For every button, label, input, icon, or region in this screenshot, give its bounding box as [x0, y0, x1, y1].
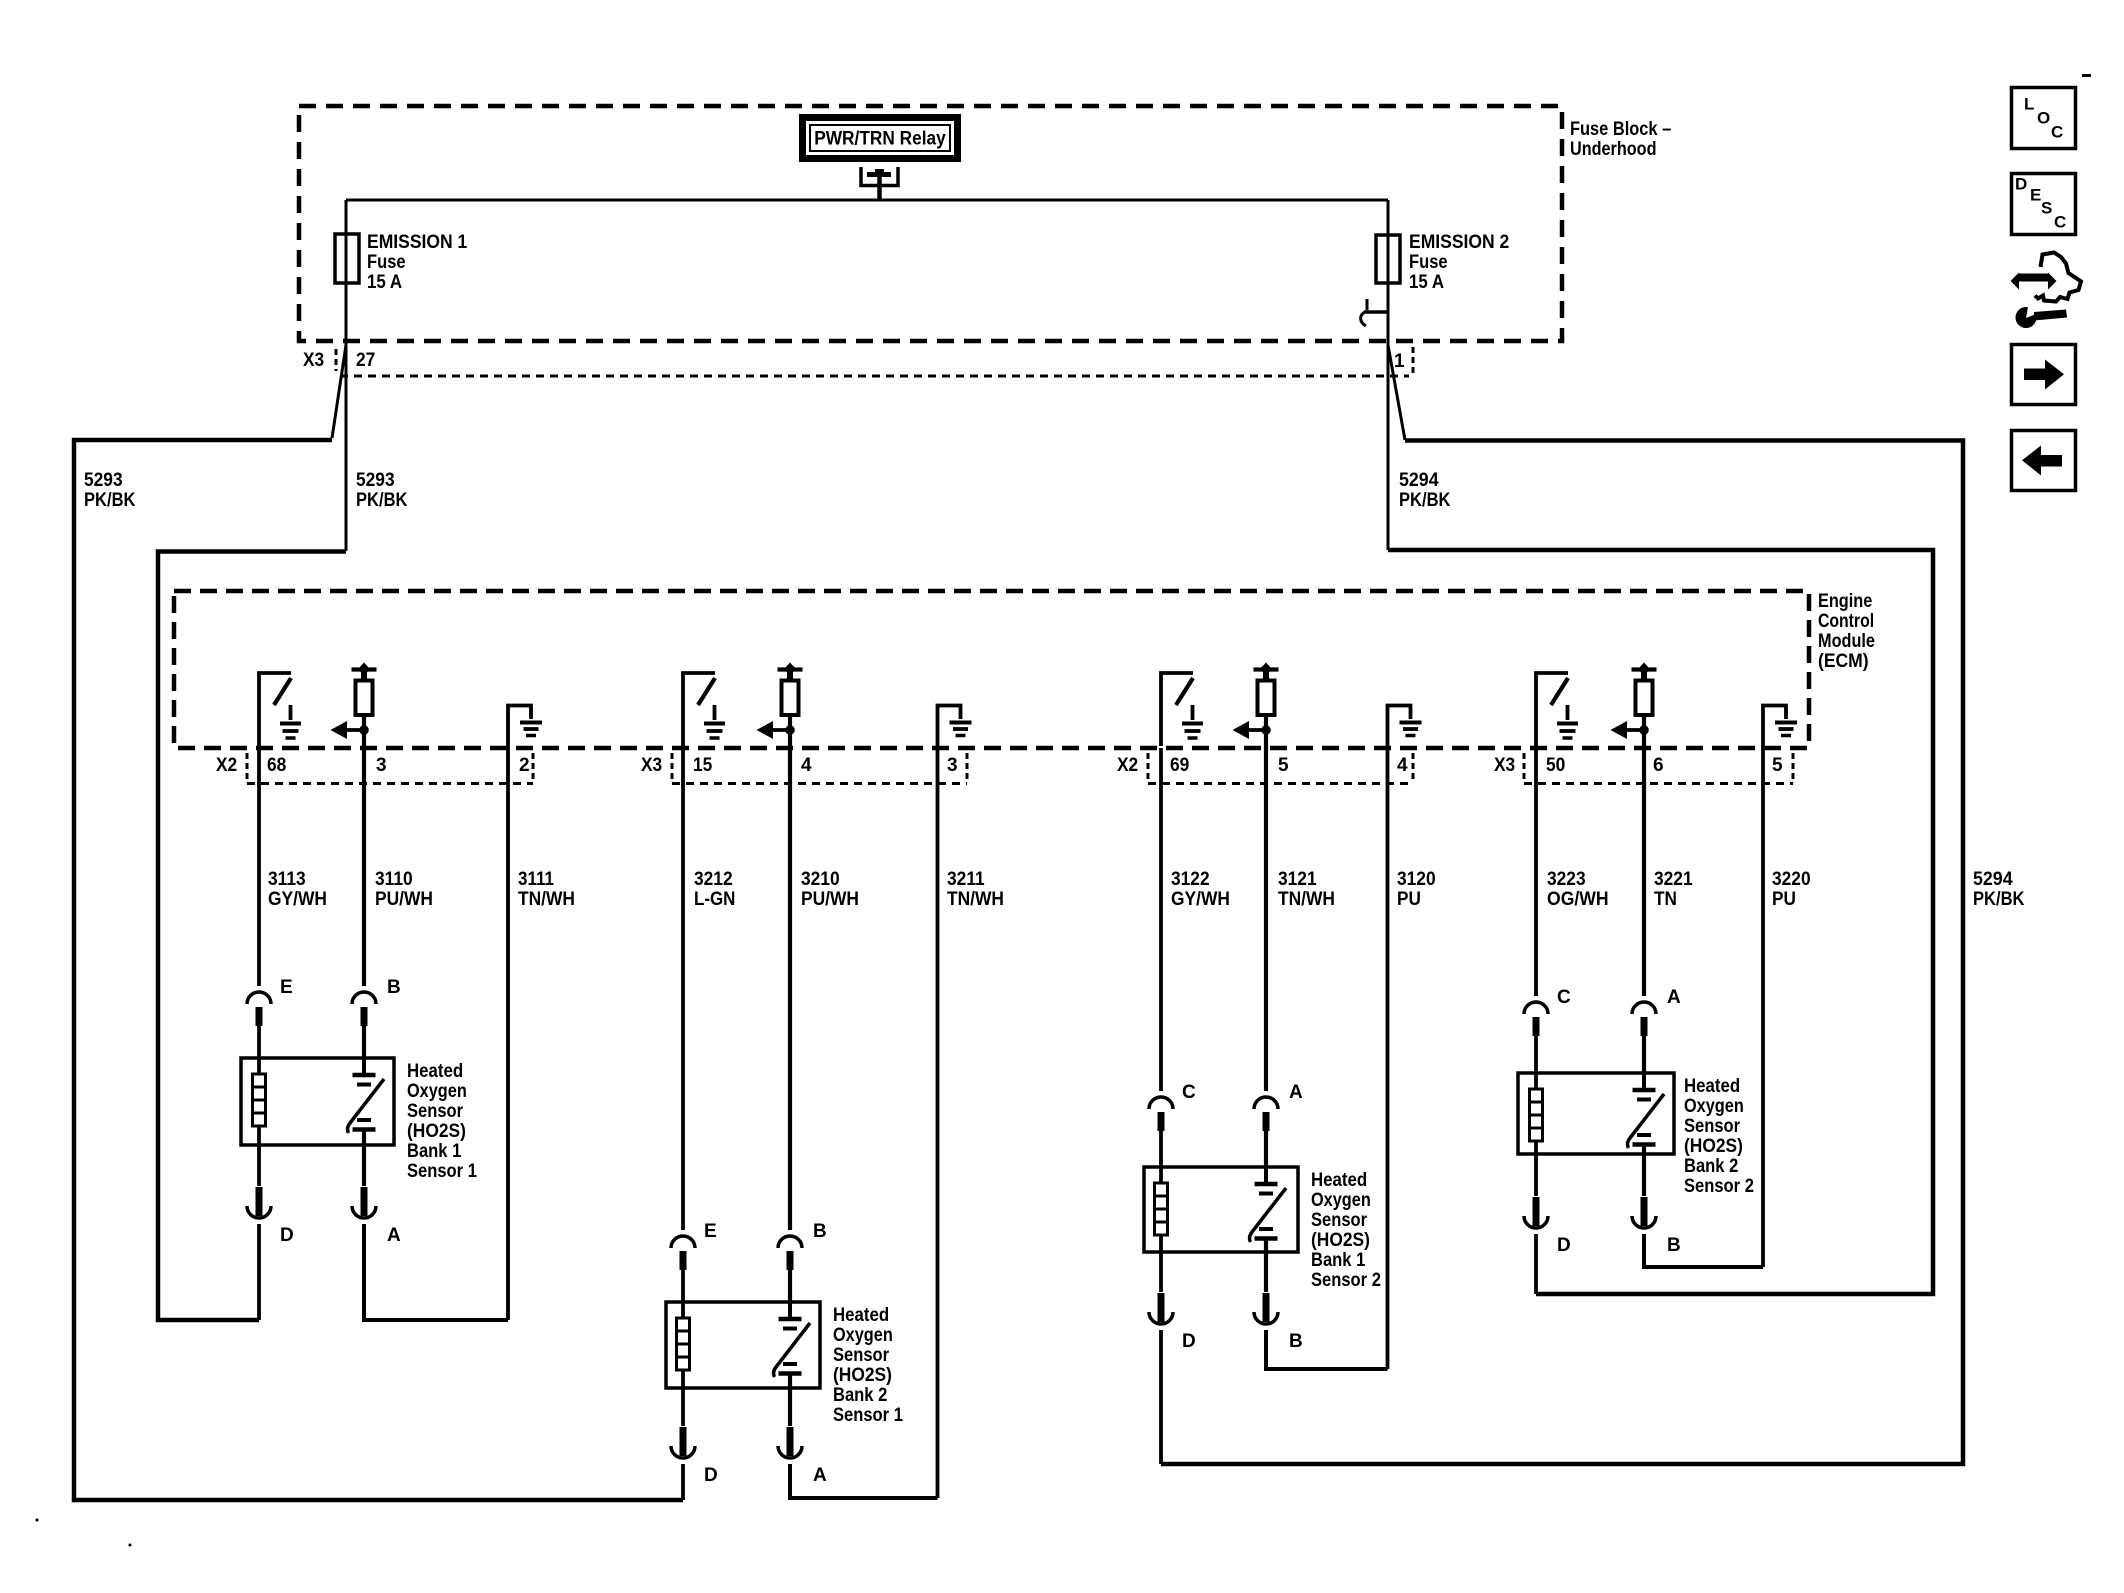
wire from pin 68 to HO2S Bank 1 Sensor 1 pin E: [257, 748, 261, 986]
svg-text:3120: 3120: [1397, 869, 1436, 890]
svg-text:2: 2: [519, 755, 530, 776]
svg-text:Oxygen: Oxygen: [833, 1325, 893, 1346]
svg-text:X2: X2: [1117, 755, 1138, 776]
pin 68: [267, 755, 286, 776]
svg-text:(HO2S): (HO2S): [833, 1365, 892, 1386]
svg-text:3: 3: [376, 755, 387, 776]
sensor cell (battery w/ arrow) of HO2S Bank 2 Sensor 1: [774, 1302, 810, 1388]
pin 5: [1278, 755, 1289, 776]
pigtail terminal B of HO2S Bank 1 Sensor 1: [352, 992, 376, 1026]
heater element of HO2S Bank 1 Sensor 2: [1155, 1167, 1168, 1252]
svg-text:TN/WH: TN/WH: [947, 889, 1004, 910]
pin 2: [519, 755, 530, 776]
svg-text:TN/WH: TN/WH: [1278, 889, 1335, 910]
svg-text:GY/WH: GY/WH: [1171, 889, 1230, 910]
DESC button: [2012, 174, 2076, 235]
svg-text:L: L: [2024, 95, 2034, 114]
svg-text:A: A: [1667, 987, 1681, 1008]
svg-text:Sensor: Sensor: [1684, 1116, 1741, 1137]
wire D to heater feed: [1159, 1330, 1163, 1464]
svg-text:S: S: [2041, 199, 2052, 218]
svg-text:5293: 5293: [356, 470, 395, 491]
terminal hook at fuse 2: [1361, 299, 1388, 326]
pin 50: [1546, 755, 1565, 776]
ECM driver switch for HO2S Bank 2 Sensor 2 heater: [1536, 673, 1578, 746]
svg-text:5293: 5293: [84, 470, 123, 491]
svg-text:X3: X3: [641, 755, 662, 776]
svg-text:Sensor: Sensor: [833, 1345, 890, 1366]
pigtail terminal B of HO2S Bank 2 Sensor 1: [778, 1236, 802, 1270]
wire 5294 PK/BK inner branch to HO2S B2S2 heater: [1388, 550, 1933, 1294]
svg-text:5294: 5294: [1973, 869, 2013, 890]
connector separator right: [532, 753, 535, 783]
svg-text:5294: 5294: [1399, 470, 1439, 491]
wire from pin 5 to HO2S Bank 1 Sensor 2 pin A: [1264, 750, 1268, 1091]
sensor cell (battery w/ arrow) of HO2S Bank 1 Sensor 2: [1250, 1167, 1286, 1252]
pigtail terminal A of HO2S Bank 1 Sensor 1: [352, 1145, 376, 1218]
svg-text:(HO2S): (HO2S): [1311, 1230, 1370, 1251]
wire D to heater feed: [1534, 1234, 1538, 1294]
wire 5294 below fuse 2: [1387, 283, 1390, 550]
Engine Control Module (ECM) box: [174, 591, 1809, 748]
svg-text:PK/BK: PK/BK: [356, 490, 408, 511]
pigtail terminal E of HO2S Bank 1 Sensor 1: [247, 992, 271, 1026]
ECM sense resistor for HO2S Bank 1 Sensor 1 signal: [331, 663, 377, 751]
wire from pin 5 (low ref): [1761, 748, 1765, 1267]
label wire 3122 GY/WH: [1171, 869, 1230, 910]
ECM sense resistor for HO2S Bank 1 Sensor 2 signal: [1233, 663, 1279, 751]
pigtail terminal C of HO2S Bank 2 Sensor 2: [1524, 1002, 1548, 1036]
connector dotted line: [1524, 782, 1793, 785]
sensor cell (battery w/ arrow) of HO2S Bank 2 Sensor 2: [1628, 1073, 1664, 1154]
wire: [257, 1024, 261, 1058]
svg-text:3121: 3121: [1278, 869, 1317, 890]
svg-text:D: D: [1182, 1331, 1196, 1352]
svg-text:E: E: [280, 977, 293, 998]
svg-text:1: 1: [1394, 351, 1405, 372]
wire: drop to fuse 1: [345, 200, 348, 345]
pin 3: [376, 755, 387, 776]
connector separator left: [335, 349, 338, 371]
connector separator right: [1412, 347, 1415, 374]
svg-text:Bank 2: Bank 2: [833, 1385, 887, 1406]
svg-text:A: A: [813, 1465, 827, 1486]
pin 15: [693, 755, 713, 776]
fuse block box: Fuse Block - Underhood: [299, 106, 1562, 341]
wire: [1642, 1034, 1646, 1073]
connector separator left: [1147, 753, 1150, 783]
ECM driver switch for HO2S Bank 1 Sensor 2 heater: [1161, 673, 1203, 746]
svg-text:4: 4: [1397, 755, 1408, 776]
svg-text:A: A: [1289, 1082, 1303, 1103]
svg-text:EMISSION 1: EMISSION 1: [367, 232, 468, 253]
wire from pin 50 to HO2S Bank 2 Sensor 2 pin C: [1534, 748, 1538, 996]
label Engine Control Module (ECM): [1818, 591, 1875, 672]
svg-text:50: 50: [1546, 755, 1565, 776]
svg-text:3: 3: [947, 755, 958, 776]
wire: [362, 1024, 366, 1058]
svg-text:5: 5: [1278, 755, 1289, 776]
ECM internal ground for HO2S Bank 2 Sensor 2 low reference: [1763, 706, 1797, 749]
sensor box HO2S Bank 1 Sensor 2: [1144, 1167, 1381, 1291]
svg-text:C: C: [2051, 123, 2063, 142]
connector separator right: [966, 753, 969, 783]
wire: relay feed bus to fuses: [346, 199, 1388, 202]
connector X2 label (HO2S Bank 1 Sensor 1): [216, 755, 237, 776]
label wire 3121 TN/WH: [1278, 869, 1335, 910]
svg-text:B: B: [813, 1221, 827, 1242]
svg-text:Bank 1: Bank 1: [407, 1141, 462, 1162]
svg-text:PK/BK: PK/BK: [1399, 490, 1451, 511]
svg-text:(HO2S): (HO2S): [407, 1121, 466, 1142]
pigtail terminal D of HO2S Bank 2 Sensor 1: [671, 1388, 695, 1458]
svg-text:Oxygen: Oxygen: [407, 1081, 467, 1102]
wire 5293 PK/BK left branch to HO2S B2S1 heater: [74, 440, 683, 1500]
pigtail terminal E of HO2S Bank 2 Sensor 1: [671, 1236, 695, 1270]
vehicle/wrench icon: [2011, 253, 2082, 329]
pin 69: [1170, 755, 1189, 776]
svg-text:A: A: [387, 1225, 401, 1246]
wire A to low reference pin: [364, 1224, 508, 1320]
svg-text:L-GN: L-GN: [694, 889, 735, 910]
pigtail terminal A of HO2S Bank 2 Sensor 1: [778, 1388, 802, 1458]
svg-text:Module: Module: [1818, 631, 1875, 652]
svg-text:Bank 1: Bank 1: [1311, 1250, 1366, 1271]
pigtail terminal B of HO2S Bank 2 Sensor 2: [1632, 1154, 1656, 1228]
label wire 3210 PU/WH: [801, 869, 859, 910]
svg-text:EMISSION 2: EMISSION 2: [1409, 232, 1509, 253]
label wire 5294 PK/BK: [1399, 470, 1451, 511]
svg-text:D: D: [1557, 1235, 1571, 1256]
svg-text:TN: TN: [1654, 889, 1677, 910]
label wire 3221 TN: [1654, 869, 1693, 910]
svg-text:Engine: Engine: [1818, 591, 1872, 612]
connector dotted line: [340, 375, 1409, 378]
ECM sense resistor for HO2S Bank 2 Sensor 1 signal: [757, 663, 803, 751]
svg-text:O: O: [2037, 109, 2050, 128]
pigtail terminal A of HO2S Bank 1 Sensor 2: [1254, 1097, 1278, 1131]
svg-text:Bank 2: Bank 2: [1684, 1156, 1738, 1177]
svg-text:Heated: Heated: [1684, 1076, 1740, 1097]
svg-text:Underhood: Underhood: [1570, 139, 1657, 160]
connector dotted line: [672, 782, 967, 785]
wire: [1534, 1034, 1538, 1073]
svg-text:Sensor 2: Sensor 2: [1684, 1176, 1754, 1197]
svg-text:3122: 3122: [1171, 869, 1210, 890]
label wire 3220 PU: [1772, 869, 1811, 910]
wire from pin 15 to HO2S Bank 2 Sensor 1 pin E: [681, 748, 685, 1230]
svg-text:D: D: [280, 1225, 294, 1246]
svg-text:Fuse: Fuse: [367, 252, 406, 273]
svg-text:C: C: [2054, 213, 2066, 232]
wire A to low reference pin: [790, 1464, 938, 1498]
svg-text:Sensor: Sensor: [407, 1101, 464, 1122]
pin 4: [1397, 755, 1408, 776]
pin 27: [356, 350, 375, 371]
pigtail terminal C of HO2S Bank 1 Sensor 2: [1149, 1097, 1173, 1131]
svg-text:Sensor 1: Sensor 1: [407, 1161, 477, 1182]
svg-text:X2: X2: [216, 755, 237, 776]
svg-text:Heated: Heated: [407, 1061, 463, 1082]
pigtail terminal D of HO2S Bank 1 Sensor 1: [247, 1145, 271, 1218]
svg-text:PU: PU: [1772, 889, 1796, 910]
svg-text:15 A: 15 A: [367, 272, 402, 293]
label wire 5293 PK/BK: [356, 470, 408, 511]
svg-text:Sensor 2: Sensor 2: [1311, 1270, 1381, 1291]
pigtail terminal B of HO2S Bank 1 Sensor 2: [1254, 1252, 1278, 1324]
connector dotted line: [1148, 782, 1413, 785]
relay contact symbol: [861, 167, 898, 201]
svg-text:Heated: Heated: [1311, 1170, 1367, 1191]
label wire 5293 PK/BK (far left): [84, 470, 136, 511]
svg-text:C: C: [1182, 1082, 1196, 1103]
svg-text:3220: 3220: [1772, 869, 1811, 890]
pigtail terminal D of HO2S Bank 1 Sensor 2: [1149, 1252, 1173, 1324]
svg-text:68: 68: [267, 755, 286, 776]
wire 5293 below fuse 1: [345, 283, 348, 551]
connector separator left: [671, 753, 674, 783]
svg-text:3210: 3210: [801, 869, 840, 890]
svg-text:15 A: 15 A: [1409, 272, 1444, 293]
back (left arrow) button: [2012, 431, 2076, 491]
svg-text:(HO2S): (HO2S): [1684, 1136, 1743, 1157]
ECM internal ground for HO2S Bank 2 Sensor 1 low reference: [938, 706, 972, 749]
label wire 3110 PU/WH: [375, 869, 433, 910]
wire from pin 69 to HO2S Bank 1 Sensor 2 pin C: [1159, 748, 1163, 1091]
svg-text:PWR/TRN Relay: PWR/TRN Relay: [814, 129, 946, 150]
stray mark bottom left 2: [129, 1544, 132, 1547]
svg-text:B: B: [1289, 1331, 1303, 1352]
wire 5294 diagonal through connector (right): [1388, 345, 1405, 440]
label wire 3113 GY/WH: [268, 869, 327, 910]
relay K1 PWR/TRN Relay box: [803, 118, 958, 159]
svg-text:GY/WH: GY/WH: [268, 889, 327, 910]
connector separator right: [1792, 753, 1795, 783]
wire: drop to fuse 2: [1387, 200, 1390, 345]
wire 5293 PK/BK branch to HO2S B1S1 heater: [158, 552, 346, 1321]
svg-text:Oxygen: Oxygen: [1311, 1190, 1371, 1211]
heater element of HO2S Bank 2 Sensor 2: [1530, 1073, 1543, 1154]
fuse F1 EMISSION 1 15 A: [335, 232, 468, 293]
svg-text:PK/BK: PK/BK: [84, 490, 136, 511]
ECM driver switch for HO2S Bank 1 Sensor 1 heater: [259, 673, 301, 746]
svg-text:Fuse Block –: Fuse Block –: [1570, 119, 1671, 140]
svg-text:15: 15: [693, 755, 713, 776]
wire D to heater feed: [681, 1464, 685, 1500]
pin 3: [947, 755, 958, 776]
connector X3 label (HO2S Bank 2 Sensor 2): [1494, 755, 1515, 776]
connector X2 label (HO2S Bank 1 Sensor 2): [1117, 755, 1138, 776]
svg-text:D: D: [704, 1465, 718, 1486]
connector X3 label (fuse block): [303, 350, 324, 371]
wire B to low reference pin: [1266, 1330, 1388, 1369]
ECM internal ground for HO2S Bank 1 Sensor 2 low reference: [1388, 706, 1422, 749]
wire from pin 2 (low ref): [506, 748, 510, 1320]
svg-text:4: 4: [801, 755, 812, 776]
label wire 5294 PK/BK (far right): [1973, 869, 2025, 910]
svg-text:Sensor: Sensor: [1311, 1210, 1368, 1231]
svg-text:27: 27: [356, 350, 375, 371]
pigtail terminal A of HO2S Bank 2 Sensor 2: [1632, 1002, 1656, 1036]
label wire 3111 TN/WH: [518, 869, 575, 910]
svg-text:69: 69: [1170, 755, 1189, 776]
connector dotted line: [247, 782, 533, 785]
next (right arrow) button: [2012, 345, 2076, 405]
wire: [788, 1268, 792, 1302]
wire from pin 4 (low ref): [1386, 748, 1390, 1369]
svg-text:TN/WH: TN/WH: [518, 889, 575, 910]
svg-text:3212: 3212: [694, 869, 733, 890]
svg-text:X3: X3: [1494, 755, 1515, 776]
svg-text:3223: 3223: [1547, 869, 1586, 890]
label wire 3223 OG/WH: [1547, 869, 1609, 910]
svg-text:C: C: [1557, 987, 1571, 1008]
svg-text:PK/BK: PK/BK: [1973, 889, 2025, 910]
svg-text:3111: 3111: [518, 869, 554, 890]
pin 5: [1772, 755, 1783, 776]
connector X3 label (HO2S Bank 2 Sensor 1): [641, 755, 662, 776]
LOC button: [2012, 88, 2076, 149]
label Fuse Block - Underhood: [1570, 119, 1671, 160]
svg-text:Heated: Heated: [833, 1305, 889, 1326]
ECM sense resistor for HO2S Bank 2 Sensor 2 signal: [1611, 663, 1657, 751]
pin 4: [801, 755, 812, 776]
svg-text:B: B: [1667, 1235, 1681, 1256]
svg-text:6: 6: [1653, 755, 1664, 776]
svg-text:Control: Control: [1818, 611, 1874, 632]
svg-text:Sensor 1: Sensor 1: [833, 1405, 903, 1426]
svg-text:(ECM): (ECM): [1818, 651, 1869, 672]
fuse F2 EMISSION 2 15 A: [1376, 232, 1509, 293]
svg-text:PU: PU: [1397, 889, 1421, 910]
wire 5294 PK/BK outer branch to HO2S B1S2 heater: [1161, 441, 1963, 1465]
label wire 3211 TN/WH: [947, 869, 1004, 910]
svg-text:3211: 3211: [947, 869, 985, 890]
ECM internal ground for HO2S Bank 1 Sensor 1 low reference: [508, 706, 542, 749]
svg-text:X3: X3: [303, 350, 324, 371]
svg-text:3110: 3110: [375, 869, 413, 890]
wire D to heater feed: [257, 1224, 261, 1320]
pigtail terminal D of HO2S Bank 2 Sensor 2: [1524, 1154, 1548, 1228]
svg-text:3113: 3113: [268, 869, 306, 890]
svg-text:PU/WH: PU/WH: [375, 889, 433, 910]
svg-text:E: E: [704, 1221, 717, 1242]
stray mark bottom left: [36, 1519, 39, 1522]
connector separator left: [1523, 753, 1526, 783]
stray mark top right: [2082, 74, 2091, 77]
wire: [1159, 1129, 1163, 1167]
pin 6: [1653, 755, 1664, 776]
wire from pin 3 to HO2S Bank 1 Sensor 1 pin B: [362, 750, 366, 986]
svg-text:OG/WH: OG/WH: [1547, 889, 1609, 910]
wire B to low reference pin: [1644, 1234, 1763, 1267]
svg-text:5: 5: [1772, 755, 1783, 776]
svg-text:PU/WH: PU/WH: [801, 889, 859, 910]
svg-text:D: D: [2015, 175, 2027, 194]
heater element of HO2S Bank 1 Sensor 1: [253, 1058, 266, 1145]
sensor box HO2S Bank 1 Sensor 1: [241, 1058, 477, 1182]
heater element of HO2S Bank 2 Sensor 1: [677, 1302, 690, 1388]
pin 1: [1394, 351, 1405, 372]
label wire 3212 L-GN: [694, 869, 735, 910]
wire: [681, 1268, 685, 1302]
wire 5293 diagonal through connector (left): [332, 345, 346, 438]
wire: [1264, 1129, 1268, 1167]
label wire 3120 PU: [1397, 869, 1436, 910]
svg-text:E: E: [2030, 186, 2041, 205]
wire from pin 4 to HO2S Bank 2 Sensor 1 pin B: [788, 750, 792, 1230]
connector separator right: [1412, 753, 1415, 783]
ECM driver switch for HO2S Bank 2 Sensor 1 heater: [683, 673, 725, 746]
sensor cell (battery w/ arrow) of HO2S Bank 1 Sensor 1: [348, 1058, 384, 1145]
svg-text:3221: 3221: [1654, 869, 1693, 890]
wire from pin 6 to HO2S Bank 2 Sensor 2 pin A: [1642, 750, 1646, 996]
svg-text:Oxygen: Oxygen: [1684, 1096, 1744, 1117]
wire from pin 3 (low ref): [936, 748, 940, 1498]
connector separator left: [246, 753, 249, 783]
svg-text:Fuse: Fuse: [1409, 252, 1448, 273]
svg-text:B: B: [387, 977, 401, 998]
sensor box HO2S Bank 2 Sensor 1: [666, 1302, 903, 1426]
sensor box HO2S Bank 2 Sensor 2: [1518, 1073, 1754, 1197]
